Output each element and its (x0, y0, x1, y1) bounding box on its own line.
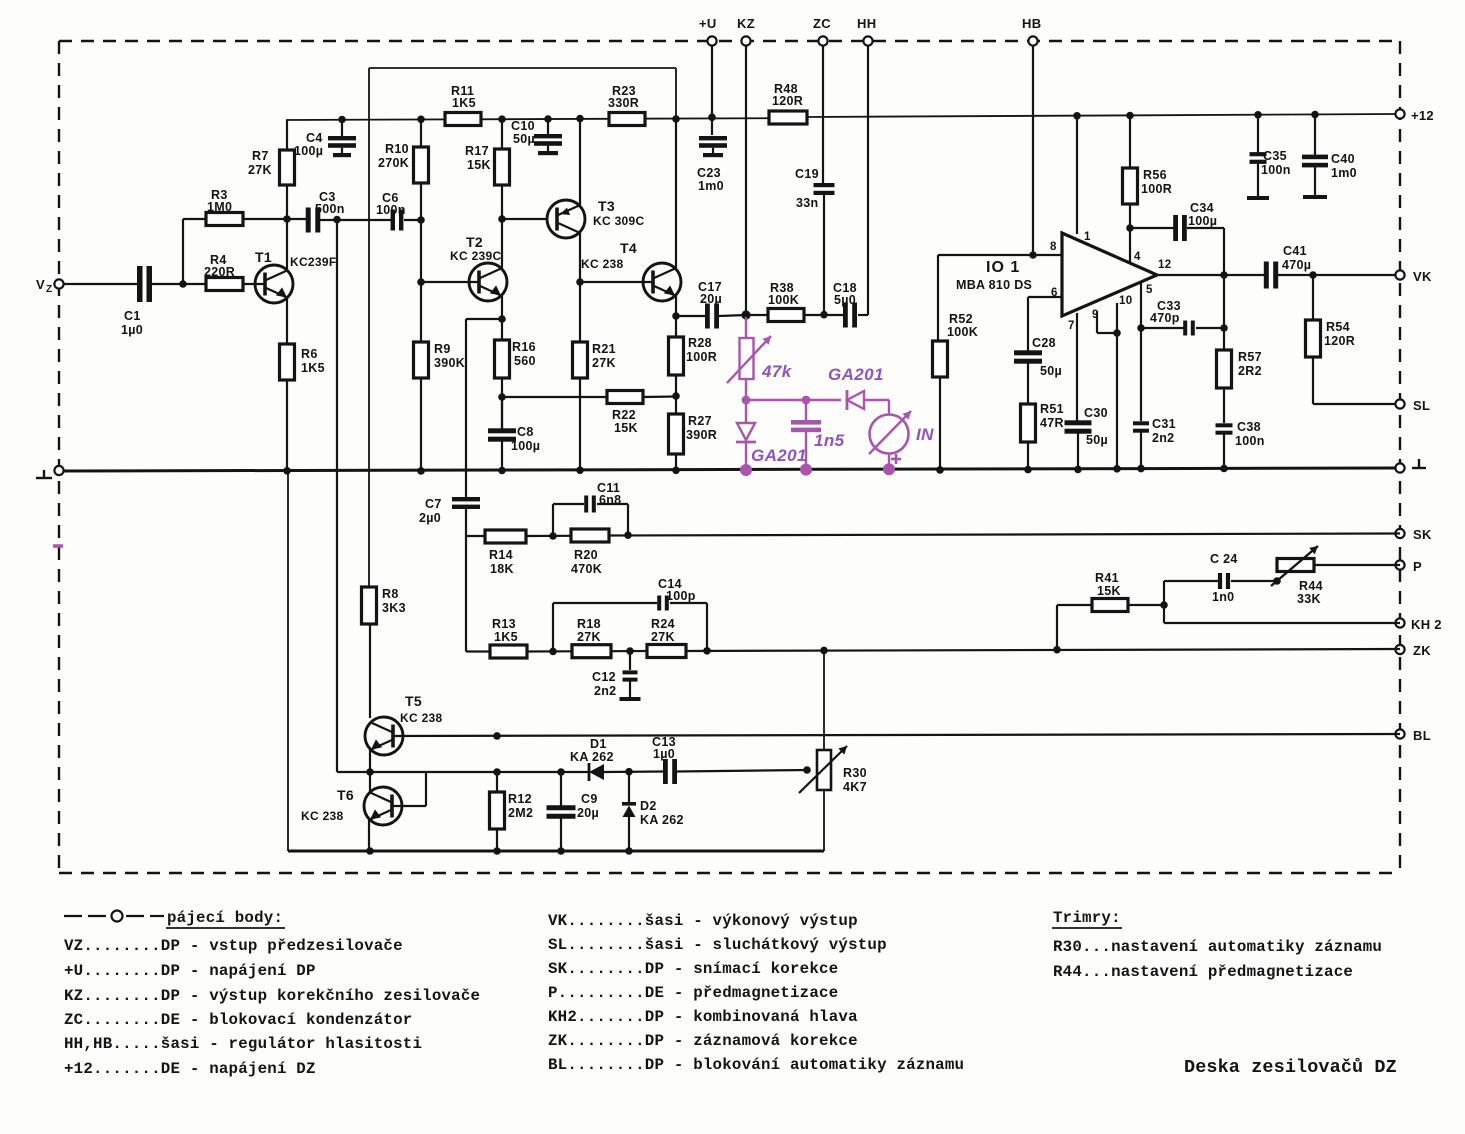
transistor T5 (365, 693, 443, 755)
svg-text:C31: C31 (1152, 417, 1176, 431)
terminal VK (1395, 269, 1432, 284)
legend: SK line (548, 960, 838, 978)
wire: R28 to R27 node (672, 375, 680, 414)
svg-text:IN: IN (916, 425, 934, 444)
svg-text:ZC: ZC (813, 16, 831, 31)
svg-text:100R: 100R (686, 350, 717, 364)
wire: C13 to R30 wiper (677, 766, 811, 774)
wire: HB down to op-amp pin 8 (1029, 45, 1037, 259)
diode D2 KA262 (622, 772, 684, 855)
svg-text:1K5: 1K5 (452, 96, 476, 110)
resistor R48 (769, 82, 807, 124)
wire: 47k to magenta node row (742, 379, 841, 404)
wire: KZ down to C17 node (745, 45, 747, 315)
diode GA201 horizontal (magenta) (828, 365, 884, 410)
terminal ground right (1395, 459, 1426, 473)
svg-text:120R: 120R (772, 94, 803, 108)
trimmer R44 (1271, 546, 1323, 606)
svg-text:4: 4 (1134, 251, 1141, 263)
potentiometer 47k (magenta) (727, 336, 793, 383)
svg-text:C34: C34 (1190, 201, 1214, 215)
svg-text:R14: R14 (489, 548, 513, 562)
svg-text:C 24: C 24 (1210, 552, 1238, 566)
svg-text:R10: R10 (385, 142, 409, 156)
meter IN (magenta) (869, 411, 934, 464)
svg-text:10: 10 (1119, 295, 1132, 307)
capacitor C7 (419, 497, 480, 525)
svg-text:IO 1: IO 1 (986, 259, 1020, 276)
legend: BL line (548, 1056, 964, 1074)
pin 6 label (1051, 287, 1058, 299)
svg-text:HB: HB (1022, 16, 1041, 31)
svg-text:R24: R24 (651, 617, 675, 631)
wire: C31 branch (1140, 328, 1142, 421)
wire: T1 emitter to R6 (286, 298, 288, 344)
border: dashed outline of board DZ (59, 41, 1400, 873)
svg-text:SL: SL (1413, 398, 1430, 413)
wire: R18 to R24 node (611, 647, 647, 655)
resistor R8 (362, 587, 406, 624)
svg-text:220R: 220R (204, 265, 235, 279)
svg-text:20µ: 20µ (577, 806, 599, 820)
svg-text:P.........DE - předmagnetizace: P.........DE - předmagnetizace (548, 984, 838, 1002)
wire: R14 to R20 node (526, 532, 571, 540)
svg-text:R8: R8 (382, 587, 399, 601)
svg-text:KZ........DP - výstup korekční: KZ........DP - výstup korekčního zesilov… (64, 987, 480, 1005)
svg-text:33n: 33n (796, 196, 818, 210)
transistor T3 (547, 198, 644, 238)
svg-text:100n: 100n (1261, 163, 1291, 177)
svg-text:R18: R18 (577, 617, 601, 631)
resistor R3 (206, 188, 243, 226)
legend: Trimry header (1052, 909, 1122, 928)
svg-text:1µ0: 1µ0 (121, 323, 143, 337)
svg-text:R30: R30 (843, 766, 867, 780)
legend: ZC line (64, 1011, 412, 1029)
svg-text:27K: 27K (577, 630, 601, 644)
wire: R16 to R22 node (498, 378, 506, 428)
wire: C41 to VK terminal (1278, 271, 1400, 279)
legend: R30 trimmer note (1053, 938, 1382, 956)
svg-text:100µ: 100µ (294, 144, 323, 158)
wire: R21 to ground (576, 378, 584, 474)
pin 10 label (1119, 295, 1132, 307)
resistor R51 (1021, 402, 1064, 442)
svg-text:470K: 470K (571, 562, 602, 576)
svg-text:120R: 120R (1324, 334, 1355, 348)
svg-text:1m0: 1m0 (698, 179, 724, 193)
capacitor C31 (1133, 417, 1176, 472)
svg-text:SK........DP - snímací korekce: SK........DP - snímací korekce (548, 960, 838, 978)
wire: diode to IN meter (864, 400, 889, 415)
legend: ZK line (548, 1032, 858, 1050)
terminal +U (699, 16, 717, 46)
svg-text:R41: R41 (1095, 571, 1119, 585)
terminal KH2 (1395, 617, 1441, 632)
wire: R54 to SL terminal (1313, 357, 1400, 404)
svg-text:BL: BL (1413, 728, 1431, 743)
capacitor C1 (121, 266, 152, 337)
capacitor C10 (511, 115, 562, 155)
svg-text:C41: C41 (1283, 244, 1307, 258)
capacitor 1n5 (magenta) (791, 400, 845, 476)
svg-text:ZC........DE - blokovací konde: ZC........DE - blokovací kondenzátor (64, 1011, 412, 1029)
resistor R17 (465, 115, 510, 219)
svg-text:C9: C9 (581, 792, 598, 806)
capacitor C3 (306, 190, 345, 233)
legend: KH2 line (548, 1008, 858, 1026)
resistor R4 (204, 253, 243, 291)
wire: pin 7 to C30 (1076, 313, 1078, 421)
capacitor C4 (294, 116, 356, 158)
pin 4 label (1134, 251, 1141, 263)
svg-text:C38: C38 (1237, 420, 1261, 434)
svg-text:C19: C19 (795, 167, 819, 181)
wire: T3 emitter down to R21, T4 base node (576, 233, 584, 342)
svg-text:1n5: 1n5 (814, 431, 845, 450)
svg-text:ZK: ZK (1413, 643, 1431, 658)
wire: T2 collector to R17 node (498, 215, 506, 268)
terminal HH (857, 16, 876, 46)
svg-text:Z: Z (46, 284, 52, 295)
svg-text:C23: C23 (697, 166, 721, 180)
wire: T3 base (502, 218, 547, 220)
legend: R44 trimmer note (1053, 963, 1353, 981)
svg-text:KH 2: KH 2 (1411, 617, 1442, 632)
svg-text:C1: C1 (124, 309, 141, 323)
svg-text:D2: D2 (640, 799, 657, 813)
wire: R13 to R18 node (527, 648, 572, 656)
legend: KZ line (64, 987, 480, 1005)
svg-text:500n: 500n (315, 202, 345, 216)
svg-text:GA201: GA201 (828, 365, 884, 384)
svg-text:1K5: 1K5 (301, 361, 325, 375)
capacitor C40 (1302, 111, 1357, 199)
wire: C3 node to C6 (286, 216, 391, 224)
svg-text:8: 8 (1050, 241, 1057, 253)
capacitor C8 (488, 397, 540, 474)
wire: ZK line to terminal (686, 646, 1400, 655)
svg-text:C28: C28 (1032, 336, 1056, 350)
wire: T6 base from node (369, 772, 371, 791)
wire: C6 to R10 line (404, 216, 425, 224)
wire: T2 emitter branch to C7 (466, 319, 502, 497)
wire: +U down to rail (708, 45, 716, 135)
svg-text:470µ: 470µ (1282, 258, 1311, 272)
svg-text:C10: C10 (511, 119, 535, 133)
wire: R52 to ground (936, 377, 944, 474)
svg-text:2µ0: 2µ0 (419, 511, 441, 525)
svg-text:+U: +U (699, 16, 717, 31)
svg-text:560: 560 (514, 354, 536, 368)
wire: R9 to ground (417, 378, 425, 475)
svg-text:50µ: 50µ (1040, 364, 1062, 378)
terminal +12 (1395, 108, 1434, 123)
legend: +U line (64, 962, 316, 980)
svg-text:R44: R44 (1299, 579, 1323, 593)
capacitor C19 (795, 167, 835, 210)
capacitor C28 (1014, 336, 1062, 404)
wire: pin 6 to C28 (1028, 297, 1062, 351)
terminal SL (1395, 398, 1430, 413)
svg-text:HH,HB.....šasi - regulátor hla: HH,HB.....šasi - regulátor hlasitosti (64, 1035, 422, 1053)
pin 12 label (1158, 259, 1171, 271)
capacitor C24 (1164, 552, 1281, 604)
wire: +12 supply rail (286, 114, 1400, 120)
svg-text:SL........šasi - sluchátkový v: SL........šasi - sluchátkový výstup (548, 936, 887, 954)
svg-text:SK: SK (1413, 527, 1432, 542)
wire: node down to T6 base rail (336, 220, 338, 772)
transistor T4 (581, 240, 681, 301)
resistor R18 (572, 617, 611, 658)
capacitor C30 (1065, 406, 1109, 473)
wire: output node down to R57 (1220, 275, 1228, 350)
transistor T1 (255, 249, 336, 303)
resistor R56 (1123, 112, 1173, 228)
wire: IN meter to ground (magenta) (883, 453, 895, 475)
wire: C7 down to R13 row (465, 508, 467, 652)
capacitor C34 (1130, 201, 1224, 275)
capacitor C14 loop (553, 577, 707, 651)
svg-text:R44...nastavení předmagnetizac: R44...nastavení předmagnetizace (1053, 963, 1353, 981)
svg-text:15K: 15K (614, 421, 638, 435)
wire: T4 emitter to C17 node (672, 296, 680, 320)
svg-text:27K: 27K (592, 356, 616, 370)
svg-text:470p: 470p (1150, 311, 1180, 325)
legend: +12 line (64, 1060, 316, 1078)
svg-text:R6: R6 (301, 347, 318, 361)
svg-text:T5: T5 (405, 693, 422, 709)
wire: VZ input to C1 (63, 283, 137, 285)
resistor R24 (647, 617, 686, 658)
terminal P (1395, 559, 1422, 574)
svg-text:33K: 33K (1297, 592, 1321, 606)
svg-text:R16: R16 (512, 340, 536, 354)
terminal ZK (1395, 643, 1431, 658)
wire: R6 to ground (283, 380, 291, 475)
svg-text:T4: T4 (620, 240, 637, 256)
svg-text:C7: C7 (425, 497, 442, 511)
pin 7 label (1068, 320, 1075, 332)
wire: T4 collector to rail node (672, 115, 680, 268)
svg-text:15K: 15K (1097, 584, 1121, 598)
svg-text:2R2: 2R2 (1238, 364, 1262, 378)
op-amp IO1 MBA810DS (956, 233, 1157, 316)
resistor R13 (466, 617, 527, 658)
svg-text:47k: 47k (761, 362, 793, 381)
svg-text:R13: R13 (492, 617, 516, 631)
svg-text:GA201: GA201 (751, 446, 807, 465)
wire: C1 to R4 with junction (152, 280, 206, 288)
svg-text:R21: R21 (592, 342, 616, 356)
svg-text:100n: 100n (1235, 434, 1265, 448)
svg-text:100p: 100p (666, 589, 696, 603)
capacitor C9 (547, 772, 600, 855)
resistor R22 (502, 391, 676, 436)
wire: pin 4 to R56/C34 node (1126, 224, 1134, 262)
svg-text:R22: R22 (612, 408, 636, 422)
terminal BL (1395, 728, 1431, 743)
wire: pin 8 input (938, 255, 1062, 341)
wire: KH2 line (1164, 622, 1400, 624)
wire: pin 9 (1097, 311, 1121, 337)
legend: HH HB line (64, 1035, 422, 1053)
terminal ground left (36, 466, 64, 478)
svg-text:C4: C4 (306, 131, 323, 145)
svg-text:VK: VK (1413, 269, 1432, 284)
terminal SK (1395, 527, 1432, 542)
resistor R23 (608, 84, 645, 126)
resistor R54 (1306, 275, 1356, 357)
resistor R41 (1057, 571, 1164, 650)
wire: T3 collector to rail (576, 115, 584, 205)
wire: T2 base from R10 line (417, 278, 479, 286)
wire: R8 to T5 collector (369, 624, 371, 718)
resistor R11 (445, 84, 481, 126)
capacitor C18 (833, 281, 857, 328)
wire: pin 10 to ground (1113, 303, 1121, 473)
svg-text:390K: 390K (434, 356, 465, 370)
wire: T6 base row from C3 node line (337, 768, 589, 776)
svg-text:+12: +12 (1411, 108, 1434, 123)
svg-text:pájecí body:: pájecí body: (167, 909, 283, 927)
wire: T5 emitter to T6 node (366, 750, 374, 776)
node KZ junction (741, 310, 750, 319)
wire: R51 to ground (1024, 442, 1032, 473)
resistor R28 (669, 316, 718, 375)
wire: R3 to node A (243, 218, 286, 220)
transistor T6 (301, 787, 402, 825)
svg-text:1M0: 1M0 (207, 200, 232, 214)
svg-text:R27: R27 (688, 414, 712, 428)
svg-text:VZ........DP - vstup předzesil: VZ........DP - vstup předzesilovače (64, 937, 403, 955)
svg-text:Trimry:: Trimry: (1053, 909, 1121, 927)
svg-text:7: 7 (1068, 320, 1075, 332)
svg-text:R57: R57 (1238, 350, 1262, 364)
svg-text:R12: R12 (508, 792, 532, 806)
wire: R4 to T1 base (243, 283, 265, 285)
svg-text:1m0: 1m0 (1331, 166, 1357, 180)
svg-text:C40: C40 (1331, 152, 1355, 166)
svg-text:KC 238: KC 238 (400, 711, 443, 725)
svg-text:12: 12 (1158, 259, 1171, 271)
svg-text:100µ: 100µ (511, 439, 540, 453)
transistor T2 (450, 234, 507, 301)
svg-text:P: P (1413, 559, 1422, 574)
wire: junction up to R3 (183, 219, 206, 284)
svg-text:1: 1 (1084, 231, 1091, 243)
wire: T2 emitter to R16 (498, 296, 506, 340)
diode GA201 vertical (magenta) (736, 400, 807, 476)
svg-text:50µ: 50µ (1086, 433, 1108, 447)
wire: T6 collector loop (393, 772, 426, 806)
trimmer R30 (799, 650, 867, 851)
svg-text:R54: R54 (1326, 320, 1350, 334)
svg-text:4K7: 4K7 (843, 780, 867, 794)
wire: ground rail (59, 468, 1400, 471)
svg-text:KH2.......DP - kombinovaná hla: KH2.......DP - kombinovaná hlava (548, 1008, 858, 1026)
capacitor C13 (652, 735, 677, 784)
svg-text:330R: 330R (608, 96, 639, 110)
svg-text:ZK........DP - záznamová korek: ZK........DP - záznamová korekce (548, 1032, 858, 1050)
svg-text:T3: T3 (598, 198, 615, 214)
svg-text:100n: 100n (376, 203, 406, 217)
wire: R27 to ground (672, 454, 680, 474)
svg-text:1n0: 1n0 (1212, 590, 1234, 604)
wire: R41 node vertical (1160, 581, 1168, 623)
terminal VZ (36, 277, 64, 295)
svg-text:+12.......DE - napájení DZ: +12.......DE - napájení DZ (64, 1060, 316, 1078)
svg-text:KC239F: KC239F (290, 255, 336, 269)
svg-text:KC 238: KC 238 (301, 809, 344, 823)
wire: HH down to C18 (858, 45, 868, 315)
svg-text:Deska zesilovačů DZ: Deska zesilovačů DZ (1184, 1057, 1397, 1078)
svg-text:T6: T6 (337, 787, 354, 803)
wire: pin 1 to +12 rail (1073, 112, 1081, 234)
svg-text:R17: R17 (465, 144, 489, 158)
wire: feedback box top from R8 line to T4 collector node (369, 68, 676, 587)
pin 9 label (1092, 309, 1099, 321)
svg-text:KA 262: KA 262 (640, 813, 684, 827)
capacitor C11 loop (553, 481, 628, 536)
svg-text:R51: R51 (1040, 402, 1064, 416)
capacitor C6 (376, 191, 406, 231)
capacitor C41 (1264, 244, 1311, 289)
svg-text:3K3: 3K3 (382, 601, 406, 615)
capacitor C17 (676, 280, 746, 329)
capacitor C12 (592, 651, 641, 701)
resistor R38 (746, 281, 843, 322)
resistor R10 (378, 116, 429, 343)
resistor R6 (280, 344, 325, 380)
svg-text:R7: R7 (252, 149, 269, 163)
svg-text:1µ0: 1µ0 (653, 747, 675, 761)
svg-text:C35: C35 (1263, 149, 1287, 163)
wire: SK line to terminal (609, 531, 1400, 539)
wire: C19 to R38 node (820, 193, 828, 319)
svg-text:C12: C12 (592, 670, 616, 684)
wire: T5 base line / BL line (393, 732, 1400, 740)
terminal ZC (813, 16, 831, 46)
resistor R12 (490, 772, 534, 855)
resistor R27 (669, 414, 718, 454)
svg-text:KC 239C: KC 239C (450, 249, 501, 263)
legend: VK line (548, 912, 858, 930)
title: Deska zesilovacu DZ (1184, 1057, 1397, 1078)
svg-text:KA 262: KA 262 (570, 750, 614, 764)
wire: D1 to D2 node (604, 768, 663, 776)
svg-text:1K5: 1K5 (494, 630, 518, 644)
svg-text:KC 309C: KC 309C (593, 214, 644, 228)
svg-text:15K: 15K (467, 158, 491, 172)
diode D1 KA262 (570, 737, 614, 781)
resistor R20 (571, 529, 609, 576)
wire: bottom heavy rail (288, 471, 824, 851)
legend: VZ line (64, 937, 403, 955)
legend: SL line (548, 936, 887, 954)
wire: T4 base (580, 281, 653, 283)
wire: R44 to P terminal (1313, 564, 1400, 566)
svg-text:KZ: KZ (737, 16, 755, 31)
svg-text:HH: HH (857, 16, 876, 31)
svg-text:18K: 18K (490, 562, 514, 576)
svg-text:100K: 100K (947, 325, 978, 339)
svg-text:D1: D1 (590, 737, 607, 751)
svg-text:270K: 270K (378, 156, 409, 170)
pin 5 label (1146, 284, 1153, 296)
svg-text:MBA 810 DS: MBA 810 DS (956, 278, 1032, 292)
svg-text:R28: R28 (688, 336, 712, 350)
